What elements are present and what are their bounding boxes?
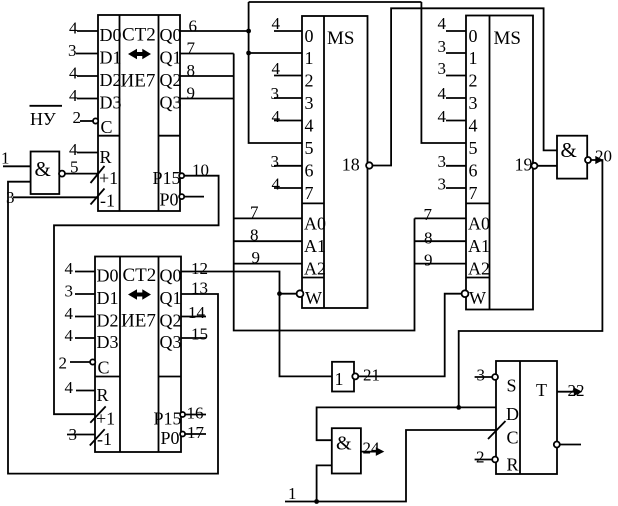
wire MS2 A0 input — [415, 217, 467, 219]
svg-text:5: 5 — [70, 158, 79, 177]
svg-text:4: 4 — [65, 326, 74, 345]
node junction dot bottom rail — [314, 499, 319, 504]
label NU with overline — [30, 109, 56, 129]
wire MS2 input 7 stub pin 3 — [446, 187, 466, 189]
svg-text:4: 4 — [438, 107, 447, 126]
wire address bus vertical and bottom run to MS2 — [234, 54, 415, 331]
svg-text:Q1: Q1 — [160, 288, 182, 308]
node junction dot W branch — [277, 291, 282, 296]
wire MS2 input 4 stub pin 4 — [446, 120, 466, 122]
svg-text:&: & — [336, 433, 352, 455]
T flip-flop R input pin 2 — [475, 457, 498, 463]
node junction dot D input — [456, 405, 461, 410]
svg-text:3: 3 — [438, 152, 447, 171]
wire DD2 Q0 pin 12 to MS1 W and buffer 1 — [181, 272, 332, 377]
AND gate DD7 (right) — [557, 136, 587, 179]
svg-text:Q3: Q3 — [160, 93, 182, 113]
svg-text:3: 3 — [305, 93, 314, 113]
svg-text:6: 6 — [189, 17, 198, 36]
svg-text:9: 9 — [187, 84, 196, 103]
wire DD2 Q3 stub pin 15 — [181, 337, 206, 339]
multiplexer MS2 labels — [468, 26, 533, 308]
wire top rail down to MS2 input 5 — [421, 2, 466, 143]
wire top rail — [249, 1, 422, 3]
wire vertical from top rail to MS1 input 5 — [249, 2, 302, 143]
counter DD2 mode arrow — [128, 289, 151, 299]
wire DD1 C stub pin 2 with NU label — [80, 120, 93, 122]
wire DD1 D3 stub pin 4 — [77, 98, 98, 100]
svg-text:3: 3 — [438, 59, 447, 78]
svg-text:7: 7 — [305, 183, 314, 203]
svg-text:4: 4 — [69, 64, 78, 83]
svg-text:5: 5 — [305, 138, 314, 158]
wire MS2 input 0 stub pin 4 — [446, 30, 466, 32]
AND gate DD3 input 2 wire from Q1 DD2 (pin 13 route) — [8, 182, 218, 474]
svg-text:D2: D2 — [97, 311, 119, 331]
svg-text:Q2: Q2 — [160, 70, 182, 90]
MS2 output 19 circle — [531, 163, 537, 169]
T flip-flop labels — [506, 376, 547, 475]
svg-text:D: D — [506, 404, 519, 424]
wire DD2 Q2 stub pin 14 — [181, 316, 206, 318]
counter DD1 labels — [99, 25, 182, 211]
svg-text:4: 4 — [305, 116, 314, 136]
wire Q3 DD1 pin 9 to address bus — [180, 98, 234, 100]
wire DD1 D0 stub pin 4 — [77, 30, 98, 32]
wire DD2 R stub pin 4 — [76, 390, 95, 392]
svg-text:2: 2 — [305, 71, 314, 91]
wire DD3 output pin 5 to DD1 +1 with slash — [65, 166, 105, 183]
wire MS2 input 2 stub pin 3 — [446, 75, 466, 77]
svg-text:ИЕ7: ИЕ7 — [121, 311, 156, 332]
svg-text:P0: P0 — [161, 428, 180, 448]
svg-text:10: 10 — [192, 161, 209, 180]
wire DD2 P0 stub pin 17 — [180, 432, 206, 437]
wire bottom rail — [285, 421, 506, 502]
svg-text:P15: P15 — [154, 409, 182, 429]
multiplexer MS1 labels — [304, 26, 360, 308]
wire AND DD7 output 20 down to T flip-flop D input — [459, 160, 603, 407]
svg-text:1: 1 — [469, 48, 478, 68]
svg-text:C: C — [98, 358, 110, 378]
wire MS1 input 3 stub pin 3 — [274, 97, 302, 99]
wire DD2 -1 stub pin 3 with slash — [67, 429, 105, 445]
svg-text:19: 19 — [515, 155, 533, 175]
svg-text:18: 18 — [342, 155, 360, 175]
svg-text:7: 7 — [187, 39, 196, 58]
arrowhead output 20 — [595, 156, 603, 164]
wire DD1 D2 stub pin 4 — [77, 75, 98, 77]
pin inversion circle DD1 C — [93, 118, 98, 123]
svg-text:&: & — [561, 138, 577, 162]
svg-text:3: 3 — [438, 37, 447, 56]
T flip-flop output 22 wire with arrow — [557, 391, 574, 393]
svg-text:7: 7 — [469, 183, 478, 203]
svg-text:4: 4 — [69, 86, 78, 105]
svg-text:8: 8 — [187, 61, 196, 80]
svg-text:CT2: CT2 — [122, 25, 156, 46]
svg-text:R: R — [507, 455, 519, 475]
svg-text:CT2: CT2 — [123, 265, 157, 286]
svg-text:D0: D0 — [97, 266, 119, 286]
svg-text:Q0: Q0 — [160, 25, 182, 45]
svg-text:D1: D1 — [100, 48, 122, 68]
svg-text:3: 3 — [271, 152, 280, 171]
AND gate DD3 (left) — [31, 152, 60, 195]
svg-text:3: 3 — [69, 425, 78, 444]
wire Q1 DD1 pin 7 to address bus — [180, 53, 234, 55]
svg-text:4: 4 — [65, 304, 74, 323]
AND DD6 output wire pin 24 with arrow — [361, 451, 377, 453]
svg-text:C: C — [507, 428, 519, 448]
svg-text:W: W — [469, 288, 486, 308]
wire Q2 DD1 pin 8 to address bus — [180, 75, 234, 77]
svg-text:24: 24 — [363, 439, 381, 458]
svg-text:20: 20 — [595, 147, 612, 166]
svg-text:MS: MS — [494, 28, 521, 49]
buffer 1 output circle pin 21 — [352, 373, 358, 379]
svg-text:3: 3 — [65, 282, 74, 301]
svg-text:3: 3 — [6, 188, 15, 207]
AND gate DD6 (bottom) — [332, 428, 361, 473]
node junction dot MS1 input1 branch — [246, 51, 251, 56]
svg-text:+1: +1 — [96, 409, 115, 429]
svg-text:6: 6 — [305, 161, 314, 181]
svg-text:D3: D3 — [100, 93, 122, 113]
svg-text:&: & — [35, 157, 51, 181]
svg-text:22: 22 — [568, 381, 585, 400]
svg-text:4: 4 — [272, 107, 281, 126]
multiplexer MS2 box — [466, 16, 533, 310]
wire MS2 output 19 to AND DD7 bottom input — [537, 165, 557, 167]
wire buffer output 21 to MS2 W input — [358, 294, 462, 377]
svg-text:7: 7 — [424, 205, 433, 224]
svg-text:A2: A2 — [468, 259, 490, 279]
wire MS2 input 6 stub pin 3 — [446, 165, 466, 167]
MS2 W input circle — [462, 290, 469, 297]
buffer block 1 (DD4) — [332, 362, 354, 392]
svg-text:3: 3 — [469, 93, 478, 113]
svg-text:4: 4 — [272, 59, 281, 78]
wire DD1 P15 pin 10 to DD2 +1 — [179, 173, 184, 178]
svg-text:+1: +1 — [99, 168, 118, 188]
svg-text:3: 3 — [271, 84, 280, 103]
wire MS1 input 4 stub pin 4 — [274, 120, 302, 122]
svg-text:A2: A2 — [304, 259, 326, 279]
svg-text:Q0: Q0 — [160, 266, 182, 286]
wire DD2 D2 stub pin 4 — [75, 316, 95, 318]
AND DD7 output circle — [585, 157, 591, 163]
svg-text:Q3: Q3 — [160, 332, 182, 352]
svg-text:-1: -1 — [100, 191, 115, 211]
svg-text:17: 17 — [187, 423, 205, 442]
svg-text:D2: D2 — [100, 70, 122, 90]
wire Q0 DD1 pin 6 to vertical bus — [180, 30, 249, 32]
svg-text:W: W — [305, 288, 322, 308]
wire DD2 P15 stub pin 16 — [180, 412, 206, 417]
svg-text:1: 1 — [288, 484, 297, 503]
T flip-flop inverted output — [554, 442, 581, 448]
wire MS1 input 0 stub pin 4 — [274, 30, 302, 32]
wire DD1 D1 stub pin 3 — [76, 53, 98, 55]
wire MS2 input 3 stub pin 4 — [446, 97, 466, 99]
wire D row from AND DD6 top input corner to T flip-flop — [317, 407, 496, 440]
AND gate DD3 input 1 wire — [3, 165, 31, 167]
svg-text:A1: A1 — [304, 236, 326, 256]
MS1 output 18 circle — [366, 162, 372, 168]
svg-text:R: R — [97, 385, 109, 405]
svg-text:R: R — [100, 147, 112, 167]
wire DD2 D3 stub pin 4 — [75, 337, 95, 339]
T flip-flop box — [496, 361, 557, 474]
svg-text:ИЕ7: ИЕ7 — [121, 71, 156, 92]
svg-text:2: 2 — [73, 108, 82, 127]
svg-text:3: 3 — [68, 41, 77, 60]
svg-text:6: 6 — [469, 161, 478, 181]
svg-text:21: 21 — [363, 366, 380, 385]
svg-text:16: 16 — [187, 404, 204, 423]
svg-text:9: 9 — [252, 248, 261, 267]
svg-text:13: 13 — [191, 279, 208, 298]
wire MS2 A2 input — [415, 263, 467, 265]
node junction dot Q0 — [246, 29, 251, 34]
wire DD1 R stub pin 4 — [77, 152, 98, 154]
svg-text:4: 4 — [65, 259, 74, 278]
svg-text:0: 0 — [305, 26, 314, 46]
wire DD1 -1 stub pin 3 with slash — [13, 189, 105, 205]
svg-text:4: 4 — [65, 378, 74, 397]
wire DD2 C stub pin 2 — [70, 359, 95, 364]
wire MS2 A1 input — [415, 240, 467, 242]
wire MS1 input 7 stub pin 4 — [274, 187, 302, 189]
T flip-flop S input pin 3 — [475, 374, 498, 380]
svg-text:Q1: Q1 — [160, 48, 182, 68]
wire DD1 P0 stub — [179, 194, 204, 199]
svg-text:15: 15 — [191, 325, 208, 344]
svg-text:8: 8 — [250, 226, 259, 245]
svg-text:4: 4 — [438, 84, 447, 103]
svg-text:4: 4 — [69, 19, 78, 38]
svg-text:1: 1 — [305, 48, 314, 68]
counter DD1 mode arrow — [128, 49, 151, 59]
svg-text:1: 1 — [335, 369, 344, 389]
wire branch to MS1 input 1 — [249, 52, 302, 54]
wire MS1 A2 input — [234, 263, 302, 265]
svg-text:8: 8 — [424, 229, 433, 248]
svg-text:5: 5 — [469, 138, 478, 158]
AND gate DD3 output circle — [59, 171, 65, 177]
wire W branch to MS1 W input — [280, 290, 304, 297]
svg-text:4: 4 — [469, 116, 478, 136]
svg-text:4: 4 — [272, 14, 281, 33]
svg-text:A1: A1 — [468, 236, 490, 256]
svg-text:12: 12 — [191, 259, 208, 278]
svg-text:2: 2 — [476, 448, 485, 467]
svg-text:P15: P15 — [153, 168, 181, 188]
svg-text:S: S — [507, 376, 517, 396]
svg-text:3: 3 — [438, 175, 447, 194]
svg-text:7: 7 — [250, 203, 259, 222]
svg-text:C: C — [101, 117, 113, 137]
svg-text:НУ: НУ — [30, 109, 56, 129]
multiplexer MS1 box — [302, 16, 368, 308]
wire MS1 A0 input — [234, 217, 302, 219]
svg-text:0: 0 — [469, 26, 478, 46]
svg-text:D3: D3 — [97, 332, 119, 352]
svg-text:-1: -1 — [97, 429, 112, 449]
wire DD2 D0 stub pin 4 — [75, 271, 95, 273]
counter DD1 (CT2 IE7) box — [98, 15, 180, 211]
wire MS1 A1 input — [234, 240, 302, 242]
svg-text:1: 1 — [1, 149, 10, 168]
wire DD2 D1 stub pin 3 — [75, 293, 95, 295]
wire MS1 input 2 stub pin 4 — [274, 75, 302, 77]
svg-text:4: 4 — [438, 14, 447, 33]
svg-text:3: 3 — [477, 366, 486, 385]
svg-text:D0: D0 — [100, 25, 122, 45]
counter DD2 labels — [96, 265, 182, 449]
svg-text:Q2: Q2 — [160, 311, 182, 331]
wire MS1 output 18 to AND DD7 top input — [372, 8, 557, 165]
svg-text:2: 2 — [469, 71, 478, 91]
svg-text:P0: P0 — [160, 190, 179, 210]
svg-text:4: 4 — [272, 175, 281, 194]
wire MS2 input 1 stub pin 3 — [446, 52, 466, 54]
svg-text:MS: MS — [327, 28, 354, 49]
svg-text:4: 4 — [69, 140, 78, 159]
svg-text:A0: A0 — [304, 214, 326, 234]
svg-text:14: 14 — [188, 303, 206, 322]
svg-text:T: T — [536, 380, 547, 400]
wire bottom rail 1 to AND DD6 lower input and T C input — [317, 465, 332, 501]
wire MS1 input 6 stub pin 3 — [274, 165, 302, 167]
svg-text:9: 9 — [424, 251, 433, 270]
svg-text:2: 2 — [59, 354, 68, 373]
counter DD2 (CT2 IE7) box — [95, 257, 181, 453]
svg-text:D1: D1 — [97, 288, 119, 308]
svg-text:A0: A0 — [468, 214, 490, 234]
